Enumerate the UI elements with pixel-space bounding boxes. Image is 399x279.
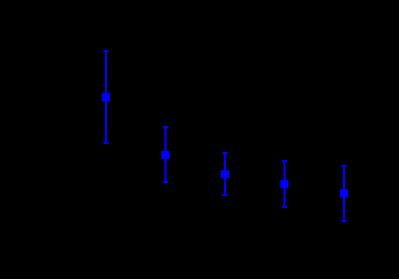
error bar point 4 [282,161,287,207]
error bar point 2 [163,127,168,182]
error bar point 3 [222,153,227,195]
marker point 3 [221,170,229,178]
error bar point 1 [103,51,108,143]
marker point 2 [161,151,169,159]
marker point 1 [102,93,110,101]
error bar point 5 [341,166,346,221]
marker point 4 [280,180,288,188]
marker point 5 [340,189,348,197]
